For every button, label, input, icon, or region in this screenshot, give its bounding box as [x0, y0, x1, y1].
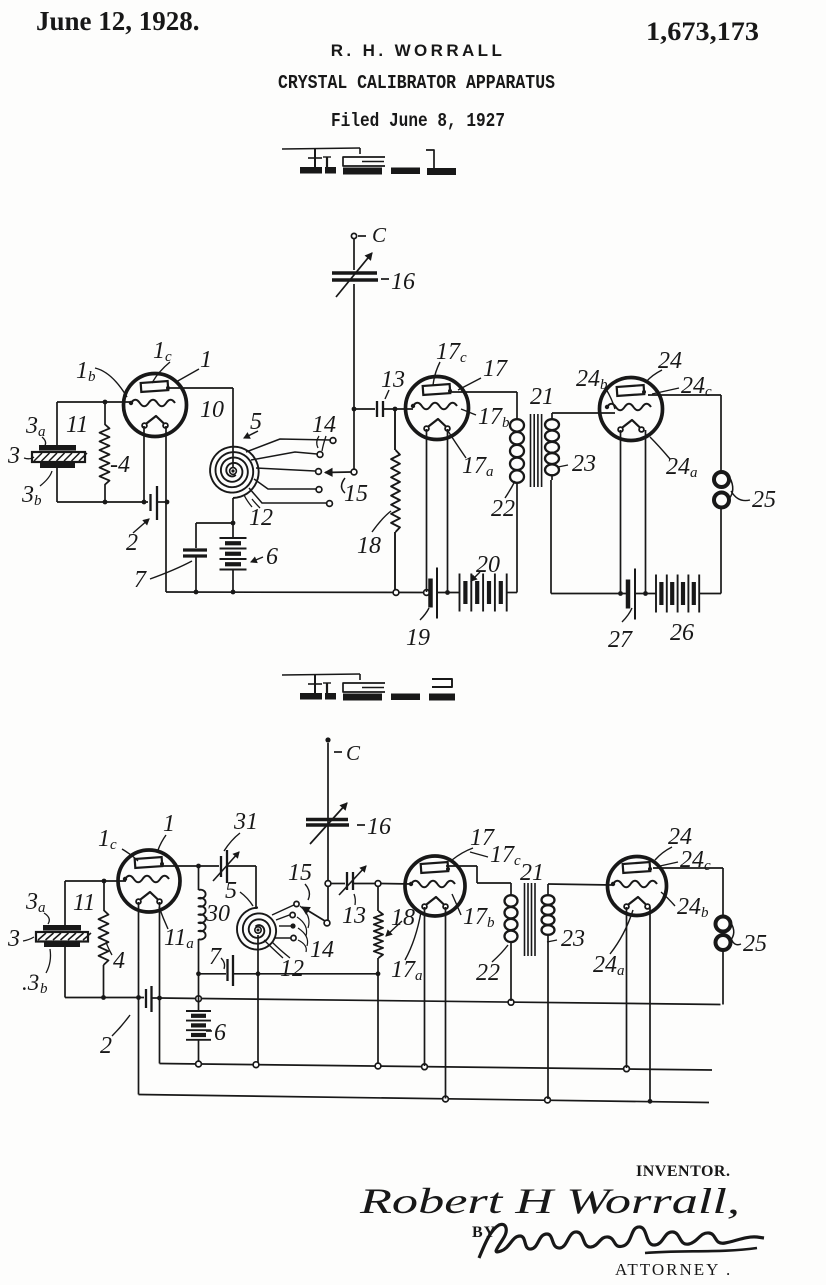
svg-text:1: 1: [163, 811, 175, 837]
svg-text:-4: -4: [110, 452, 130, 478]
svg-text:14: 14: [310, 937, 334, 963]
svg-text:C: C: [372, 223, 387, 247]
svg-text:Robert H Worrall,: Robert H Worrall,: [359, 1181, 740, 1221]
svg-text:2: 2: [126, 530, 138, 556]
svg-text:19: 19: [406, 625, 430, 651]
svg-text:30: 30: [205, 901, 230, 927]
svg-text:7: 7: [209, 944, 222, 970]
svg-text:13: 13: [381, 367, 405, 393]
svg-text:3: 3: [7, 926, 20, 952]
svg-text:1,673,173: 1,673,173: [646, 17, 759, 46]
svg-text:4: 4: [113, 948, 125, 974]
svg-text:11: 11: [66, 412, 88, 438]
svg-text:12: 12: [249, 505, 273, 531]
svg-text:CRYSTAL CALIBRATOR APPARATUS: CRYSTAL CALIBRATOR APPARATUS: [278, 72, 555, 94]
svg-text:21: 21: [530, 384, 554, 410]
svg-text:25: 25: [743, 931, 767, 957]
svg-text:31: 31: [233, 809, 258, 835]
svg-text:15: 15: [288, 860, 312, 886]
svg-text:22: 22: [491, 496, 515, 522]
svg-text:C: C: [346, 741, 361, 765]
svg-text:26: 26: [670, 620, 694, 646]
svg-text:22: 22: [476, 960, 500, 986]
svg-text:.3: .3: [22, 970, 39, 995]
svg-text:12: 12: [280, 956, 304, 982]
svg-text:5: 5: [225, 878, 237, 904]
svg-text:b: b: [40, 981, 48, 997]
svg-text:23: 23: [572, 451, 596, 477]
svg-text:10: 10: [200, 397, 224, 423]
svg-text:17: 17: [483, 356, 508, 382]
svg-text:Filed June 8, 1927: Filed June 8, 1927: [331, 110, 505, 132]
svg-text:15: 15: [344, 481, 368, 507]
svg-text:6: 6: [214, 1020, 226, 1046]
svg-text:20: 20: [476, 552, 500, 578]
svg-text:23: 23: [561, 926, 585, 952]
svg-text:16: 16: [367, 814, 391, 840]
svg-text:27: 27: [608, 627, 633, 653]
svg-text:June 12, 1928.: June 12, 1928.: [36, 6, 200, 36]
svg-text:INVENTOR.: INVENTOR.: [636, 1163, 730, 1180]
svg-text:7: 7: [134, 567, 147, 593]
svg-text:1: 1: [200, 347, 212, 373]
svg-text:5: 5: [250, 409, 262, 435]
svg-text:25: 25: [752, 487, 776, 513]
svg-text:21: 21: [520, 860, 544, 886]
svg-text:R. H. WORRALL: R. H. WORRALL: [331, 41, 506, 60]
svg-text:6: 6: [266, 544, 278, 570]
svg-text:18: 18: [357, 533, 381, 559]
svg-text:2: 2: [100, 1033, 112, 1059]
svg-text:13: 13: [342, 903, 366, 929]
svg-text:14: 14: [312, 412, 336, 438]
svg-text:11: 11: [73, 890, 95, 916]
svg-text:16: 16: [391, 269, 415, 295]
svg-text:3: 3: [7, 443, 20, 469]
svg-text:ATTORNEY .: ATTORNEY .: [615, 1260, 732, 1279]
